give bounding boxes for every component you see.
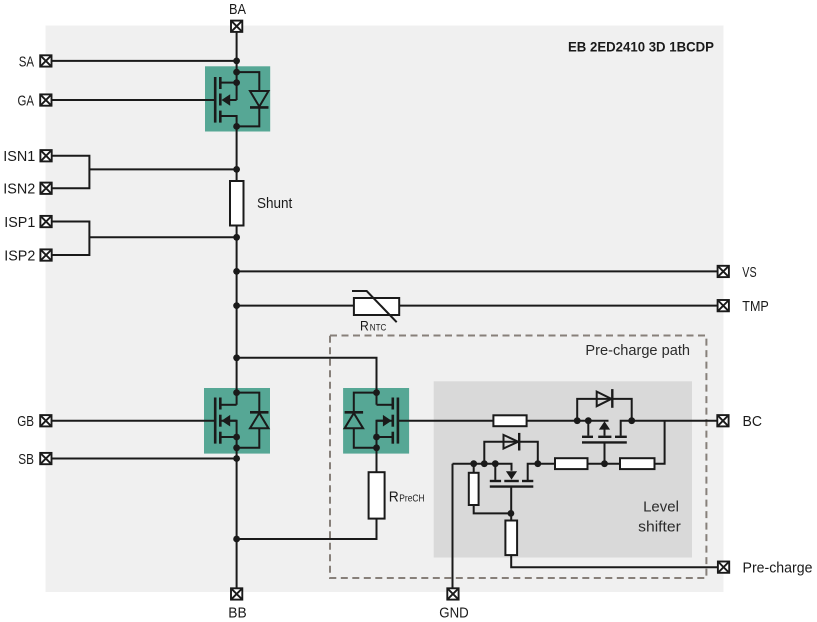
node ISN tap junction	[233, 166, 240, 173]
wire Q3 source to RPreCH	[377, 421, 392, 473]
node Q1 drain / D1 cathode junction	[233, 123, 240, 130]
node Q2 drain / D2 junction	[233, 389, 240, 396]
svg-text:Shunt: Shunt	[257, 195, 293, 212]
wire shunt to Q2 (main rail middle)	[236, 226, 238, 405]
Q1 source stub (top)	[221, 82, 236, 84]
terminal BB	[231, 588, 242, 599]
svg-text:BC: BC	[743, 413, 763, 430]
svg-text:SA: SA	[19, 53, 34, 70]
level shifter box	[434, 381, 692, 557]
diode D5 (across U3)	[504, 433, 520, 451]
node Q2 source stub junction	[233, 434, 240, 441]
resistor RNTC	[354, 298, 399, 315]
node U2 source junction	[585, 417, 592, 424]
svg-text:ISP2: ISP2	[4, 248, 35, 265]
node D1 anode junction	[233, 69, 240, 76]
wire Rv1 top lead	[473, 464, 475, 473]
node TMP junction	[233, 302, 240, 309]
node U3 source junction	[492, 460, 499, 467]
wire Rh1 to U2 source side	[527, 420, 609, 422]
node D4 anode junction	[574, 417, 581, 424]
resistor Rh3	[620, 458, 655, 469]
svg-text:R: R	[389, 489, 399, 506]
Q2 gate bar	[214, 398, 217, 444]
Q1 gate bar	[214, 77, 217, 123]
Q3 body arrow	[383, 415, 392, 427]
node SB junction	[233, 455, 240, 462]
svg-text:BB: BB	[228, 605, 246, 622]
Q2 channel bar segments	[219, 398, 222, 410]
node SA junction	[233, 58, 240, 65]
wire GA	[52, 99, 214, 101]
U3 body arrow (points down)	[506, 471, 517, 479]
terminal SA	[40, 55, 51, 66]
node U3 gate / Rv1 junction	[508, 510, 515, 517]
wire ISP1/ISP2 bracket	[52, 222, 89, 256]
svg-text:ISN1: ISN1	[3, 148, 35, 165]
schematic background region	[46, 26, 724, 593]
Q3 source stub (bottom)	[377, 436, 392, 438]
node ISP tap junction	[233, 234, 240, 241]
wire branch to pre-charge MOSFET	[237, 358, 377, 405]
wire GB	[52, 420, 215, 422]
svg-text:GB: GB	[17, 413, 34, 430]
Q2 source stub (bottom)	[221, 436, 236, 438]
wire U2 gate down to resistor row	[604, 443, 606, 463]
diode D4 (across U2)	[597, 389, 613, 408]
svg-text:GND: GND	[439, 605, 469, 622]
resistor Shunt	[230, 181, 244, 226]
terminal TMP	[718, 300, 729, 311]
U3 channel bar segments	[490, 480, 501, 482]
wire TMP line	[237, 305, 718, 307]
wire SB	[52, 458, 237, 460]
svg-text:R: R	[360, 318, 369, 334]
svg-text:Pre-charge: Pre-charge	[743, 560, 813, 577]
wire Rh2 to Rh3	[588, 463, 621, 465]
Q1 body arrow	[222, 94, 231, 106]
svg-text:TMP: TMP	[742, 298, 769, 315]
wire ISN tap	[89, 168, 236, 170]
wire Rv2 to Pre-charge terminal	[511, 555, 718, 567]
resistor Rh2	[555, 458, 588, 469]
wire GND node row	[453, 464, 512, 471]
Q3 body stub	[377, 420, 386, 422]
Q3 gate bar	[397, 398, 400, 444]
resistor Rv2	[505, 521, 517, 556]
svg-text:NTC: NTC	[370, 323, 387, 334]
body diode D1	[237, 72, 269, 126]
wire Q2 drain stub elbow	[221, 404, 236, 406]
U2 body stub	[604, 429, 606, 435]
resistor Rv1	[469, 473, 479, 505]
wire Q3 gate to level shifter resistor	[399, 420, 493, 422]
wire SA	[52, 60, 237, 62]
Q1 channel bar segments	[219, 77, 222, 89]
terminal ISN2	[40, 183, 51, 194]
body diode D3	[345, 393, 377, 448]
wire U2 bypass diode loop	[577, 399, 632, 421]
terminal GA	[40, 94, 51, 105]
transistor Q2 highlight	[204, 388, 270, 454]
wire RPreCH bottom to BB rail	[237, 519, 377, 539]
wire U3 bypass diode loop	[484, 442, 538, 464]
transistor Q3 highlight	[343, 388, 409, 454]
pre-charge path dashed border	[330, 336, 706, 579]
RNTC diagonal mark	[352, 291, 397, 322]
Q2 body stub	[228, 420, 237, 422]
svg-text:Level: Level	[643, 499, 679, 516]
node D2 anode junction	[233, 444, 240, 451]
wire BA to Q1 (main rail top)	[236, 32, 238, 100]
node D3 anode junction	[373, 444, 380, 451]
wire Q1 drain to shunt	[221, 116, 236, 181]
U2 gate bar	[582, 441, 627, 443]
terminal GB	[40, 415, 51, 426]
svg-text:GA: GA	[18, 93, 35, 110]
wire Rv1 bottom lead to gate node	[474, 505, 512, 513]
wire Q2 source to BB (main rail bottom)	[221, 421, 236, 589]
svg-text:VS: VS	[742, 264, 756, 281]
svg-text:PreCH: PreCH	[399, 494, 424, 505]
wire Rh3 to BC line riser	[655, 421, 665, 464]
terminal ISP1	[40, 216, 51, 227]
node Q3 drain / D3 junction	[373, 389, 380, 396]
node D4 cathode junction	[628, 417, 635, 424]
wire U3 drain stub riser	[528, 464, 555, 481]
node D5 cathode junction	[534, 460, 541, 467]
svg-text:EB 2ED2410 3D 1BCDP: EB 2ED2410 3D 1BCDP	[568, 39, 714, 55]
body diode D2	[237, 393, 269, 448]
U2 source stub	[587, 421, 589, 436]
node VS junction	[233, 268, 240, 275]
transistor Q1 highlight	[205, 66, 270, 131]
U3 gate bar	[490, 485, 534, 487]
node U2 gate junction	[601, 460, 608, 467]
svg-text:ISP1: ISP1	[4, 214, 35, 231]
wire U2 drain side to BC	[621, 421, 718, 436]
wire U3 gate down to Rv2	[510, 487, 512, 521]
svg-text:BA: BA	[229, 1, 246, 18]
node Rv1 top junction	[470, 460, 477, 467]
node D5 anode junction	[481, 460, 488, 467]
wire GND rail	[452, 464, 454, 589]
wire ISN1/ISN2 bracket	[52, 156, 89, 189]
terminal Pre-charge	[718, 562, 729, 573]
wire Q3 drain stub elbow	[377, 404, 392, 406]
svg-text:ISN2: ISN2	[3, 181, 35, 198]
terminal GND	[447, 588, 458, 599]
terminal VS	[718, 266, 729, 277]
terminal BC	[717, 415, 728, 426]
Q2 body arrow	[222, 415, 231, 427]
Q3 channel bar segments	[391, 398, 394, 410]
node Q1 source stub junction	[233, 79, 240, 86]
node Q3 source stub junction	[373, 434, 380, 441]
wire VS line	[237, 270, 718, 272]
wire ISP tap	[89, 236, 236, 238]
resistor RPreCH	[369, 472, 385, 518]
svg-text:Pre-charge path: Pre-charge path	[585, 342, 690, 359]
Q1 body stub	[228, 99, 237, 101]
terminal BA	[231, 21, 242, 32]
node RPreCH return junction	[233, 536, 240, 543]
U2 channel bar segments	[582, 436, 593, 438]
terminal ISN1	[40, 150, 51, 161]
node pre-charge branch junction	[233, 354, 240, 361]
U2 body arrow (points up)	[599, 421, 610, 429]
resistor Rh1 (gate series)	[493, 415, 526, 426]
terminal SB	[40, 453, 51, 464]
svg-text:shifter: shifter	[638, 519, 681, 536]
svg-text:SB: SB	[18, 451, 34, 468]
terminal ISP2	[40, 249, 51, 260]
U3 source stub	[494, 464, 496, 480]
